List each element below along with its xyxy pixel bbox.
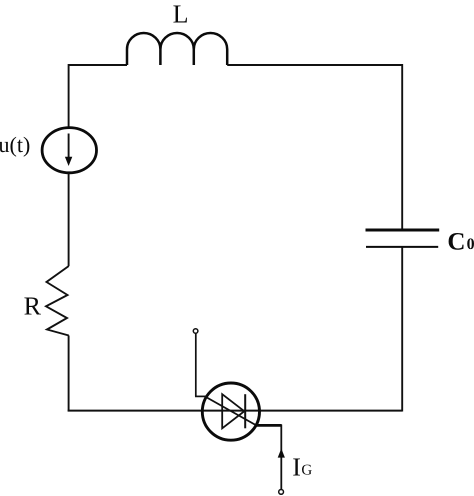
- wire: right side lower (capacitor to bottom): [401, 248, 403, 412]
- voltage source arrow shaft: [68, 134, 70, 159]
- wire: top-left horizontal segment: [69, 64, 127, 66]
- voltage source arrow head (down): [65, 157, 72, 166]
- thyristor cathode bar: [244, 394, 246, 428]
- svg-text:I: I: [292, 453, 301, 482]
- thyristor gate diagonal line: [207, 397, 257, 425]
- svg-text:C: C: [447, 228, 465, 255]
- resistor R zigzag: [46, 266, 69, 336]
- gate current arrow head (up): [278, 449, 285, 458]
- voltage source u(t) circle: [42, 128, 96, 173]
- capacitor C0 top plate: [366, 229, 440, 232]
- thyristor anode triangle: [222, 394, 244, 428]
- wire: left side upper (to source): [68, 64, 70, 128]
- wire: top-right horizontal segment: [227, 64, 402, 66]
- svg-text:0: 0: [467, 236, 474, 253]
- capacitor C0 bottom plate: [366, 246, 438, 248]
- wire: gate bottom vertical lead: [280, 425, 282, 490]
- inductor L (three arches): [127, 33, 227, 65]
- svg-text:G: G: [301, 463, 312, 479]
- gate top terminal circle: [193, 329, 198, 334]
- wire: gate top vertical lead: [195, 333, 197, 396]
- gate bottom terminal circle: [279, 490, 284, 495]
- wire: bottom horizontal: [68, 410, 403, 412]
- wire: left side between source and resistor: [68, 173, 70, 266]
- svg-text:R: R: [24, 292, 42, 321]
- wire: gate bottom horizontal out of circle: [256, 424, 282, 427]
- wire: right side upper (to capacitor): [401, 64, 403, 230]
- wire: gate top horizontal into circle: [195, 395, 208, 397]
- thyristor circle: [202, 383, 259, 440]
- svg-text:u(t): u(t): [0, 132, 30, 157]
- svg-text:L: L: [173, 0, 189, 28]
- wire: left side lower (resistor to bottom): [68, 336, 70, 412]
